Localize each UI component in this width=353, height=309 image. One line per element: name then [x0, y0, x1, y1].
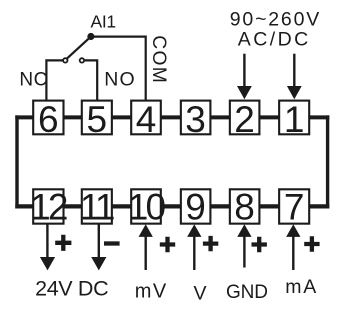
svg-text:2: 2 [234, 99, 255, 140]
svg-text:1: 1 [284, 99, 305, 140]
svg-text:7: 7 [284, 187, 305, 228]
svg-text:5: 5 [87, 99, 108, 140]
svg-text:4: 4 [136, 99, 157, 140]
svg-text:12: 12 [30, 187, 67, 228]
svg-text:3: 3 [185, 99, 206, 140]
svg-text:GND: GND [226, 282, 268, 303]
svg-text:mA: mA [285, 276, 316, 298]
svg-text:24V DC: 24V DC [35, 277, 109, 301]
svg-text:11: 11 [80, 187, 114, 228]
svg-text:AC/DC: AC/DC [238, 29, 309, 51]
svg-text:90~260V: 90~260V [230, 8, 320, 30]
svg-text:8: 8 [234, 187, 255, 228]
svg-text:V: V [193, 282, 206, 304]
svg-text:mV: mV [135, 280, 167, 302]
svg-text:9: 9 [185, 187, 206, 228]
svg-text:AI1: AI1 [91, 12, 117, 32]
svg-text:10: 10 [128, 187, 166, 228]
svg-text:COM: COM [148, 35, 169, 83]
svg-text:6: 6 [38, 99, 59, 140]
svg-text:NC: NC [19, 69, 47, 90]
svg-text:NO: NO [104, 69, 135, 91]
